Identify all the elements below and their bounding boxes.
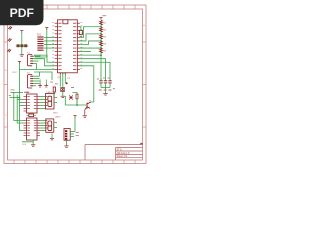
label net right bbox=[113, 88, 115, 90]
wire C6 C7 C8 common bbox=[101, 83, 110, 88]
wire R1-R2 bbox=[100, 24, 102, 27]
label C8 bbox=[109, 89, 112, 91]
connector S1 pads bbox=[17, 44, 28, 47]
wire SV3 risers bbox=[37, 63, 40, 76]
wire IC2 to DIS1 e bbox=[40, 108, 46, 110]
wire GND pin down bbox=[64, 74, 66, 83]
junction dots R ladder bbox=[100, 26, 102, 49]
capacitor C8 bbox=[108, 81, 111, 83]
display DIS2 segments bbox=[48, 121, 52, 131]
frame row letter marks bbox=[5, 24, 145, 117]
wire IC2 to DIS1 d bbox=[40, 105, 46, 107]
wire X3 VCC riser bbox=[74, 117, 76, 132]
wire IC1 row6 to R ladder junction3 bbox=[80, 41, 101, 45]
frame inner border bbox=[8, 9, 143, 160]
IC1 pin numbers right bbox=[81, 22, 83, 68]
wire S1 to ground bbox=[21, 47, 23, 54]
wire left jog to IC1 row12 bbox=[34, 59, 55, 66]
jumper JP1 bbox=[8, 26, 12, 29]
ground X3 bbox=[64, 146, 68, 147]
wire IC1 row10 to C7 bbox=[80, 59, 106, 82]
junction ladder bottom bbox=[100, 54, 102, 56]
svg-text:GND: GND bbox=[10, 90, 15, 92]
wire XTAL2 down bbox=[62, 74, 64, 92]
frame top ticks bbox=[47, 5, 135, 9]
wire SV1 to IC1 row7 bbox=[44, 44, 55, 46]
connector SV1 bbox=[37, 37, 43, 50]
title block outline bbox=[85, 145, 143, 161]
wire IC4 to DIS2 b bbox=[40, 122, 46, 124]
IC2 pins right bbox=[37, 97, 40, 109]
display DIS1 body bbox=[46, 94, 55, 110]
label C4 bbox=[80, 35, 83, 37]
wire IC2 to DIS1 a bbox=[40, 96, 46, 98]
ground IC4 bbox=[31, 145, 35, 146]
label X3 nets bbox=[76, 133, 79, 136]
capacitor C7 bbox=[104, 81, 107, 83]
wire bus tap A bbox=[11, 92, 24, 94]
resistor R4 bbox=[100, 41, 103, 46]
label C9 bbox=[71, 87, 74, 89]
VCC symbol R ladder top bbox=[99, 18, 102, 20]
IC1 pins left bbox=[55, 23, 58, 69]
IC1 pin names right bbox=[73, 23, 76, 69]
junction DIS1 top bbox=[53, 92, 55, 94]
connector X3 pads bbox=[65, 130, 67, 140]
wire IC1 row1 to C4 bbox=[80, 27, 81, 31]
svg-text:Sheet: 1/1: Sheet: 1/1 bbox=[117, 155, 129, 158]
badge PDF bbox=[0, 0, 44, 25]
DIS2 pin dashes bbox=[46, 121, 47, 129]
resistor R7 bbox=[76, 94, 78, 99]
wire bus tap B bbox=[10, 97, 20, 99]
frame outer border bbox=[4, 5, 146, 164]
VCC symbol rail left bbox=[18, 61, 21, 63]
wire IC4 to DIS2 c bbox=[40, 125, 46, 127]
wire IC1 row11 to C8 bbox=[80, 62, 110, 81]
connector SV2 bbox=[27, 55, 33, 66]
wire VCC rail right of SV1 bbox=[35, 28, 47, 57]
IC2 body bbox=[27, 94, 38, 113]
IC2 pin name dashes bbox=[27, 97, 36, 109]
resistor R8 above DIS1 bbox=[53, 87, 55, 92]
wire SV2 pin3 bbox=[33, 60, 39, 62]
svg-text:VCC: VCC bbox=[12, 72, 17, 74]
wire R7 to base bbox=[76, 99, 78, 105]
IC1 pin names left bbox=[58, 23, 61, 69]
wire SV1 to IC1 row8 bbox=[44, 47, 55, 49]
IC1 pin numbers left bbox=[52, 22, 54, 68]
wire SV3 pin1 bbox=[33, 75, 40, 77]
wire IC1 row8 right stub bbox=[80, 51, 91, 53]
wire bus V2 bbox=[17, 95, 23, 123]
junction R7 base bbox=[76, 104, 78, 106]
junction rail left bbox=[19, 97, 21, 99]
wire Q2 emitter stub bbox=[84, 110, 86, 116]
wire C9 branch bbox=[73, 93, 78, 104]
label C7 bbox=[104, 89, 107, 91]
wire SV1 to IC1 row5 bbox=[44, 36, 55, 38]
IC2 pins left bbox=[24, 97, 27, 112]
ground below Q1 bbox=[61, 96, 65, 97]
wire X3 pin2 bbox=[70, 133, 74, 135]
wire S1 to VCC bbox=[21, 33, 23, 44]
ground Q2 emitter bbox=[83, 116, 87, 117]
ground below S1 bbox=[20, 55, 24, 56]
wire R2-R3 bbox=[100, 31, 102, 34]
connector X3 body bbox=[64, 129, 70, 141]
wire IC4 to DIS2 a bbox=[40, 120, 46, 122]
frame side ticks bbox=[4, 42, 146, 127]
wire IC1 row9 to C6 bbox=[80, 55, 101, 81]
display DIS2 body bbox=[46, 119, 54, 132]
VCC symbol top rail bbox=[45, 28, 48, 30]
wire SV2 pin4 bbox=[33, 62, 37, 64]
wire DIS1 right stubs bbox=[54, 98, 57, 103]
wire IC4 bottom bbox=[22, 140, 33, 144]
transistor Q2 bbox=[85, 102, 91, 110]
wire X3 pin1 bbox=[70, 131, 75, 133]
title block field grid bbox=[116, 148, 143, 161]
IC4 body bbox=[27, 118, 38, 140]
IC4 pins left bbox=[24, 121, 27, 136]
resistor R3 bbox=[100, 34, 103, 39]
wire DIS2 right stubs bbox=[54, 123, 57, 128]
wire bus V1 bbox=[14, 93, 24, 121]
crystal Q1 bbox=[61, 88, 65, 92]
label C7 left bbox=[103, 77, 105, 79]
capacitor C4 bbox=[79, 31, 82, 35]
label rail B bbox=[50, 81, 53, 83]
frame bottom ticks bbox=[14, 160, 135, 164]
wire IC1 row4 to R ladder junction1 bbox=[80, 27, 101, 38]
wire IC1 row5 to R ladder junction2 bbox=[80, 34, 101, 41]
IC4 pin name dashes bbox=[27, 121, 36, 136]
ground DIS2 bbox=[50, 139, 54, 140]
VCC symbol X3 bbox=[73, 116, 76, 118]
label net tap bbox=[9, 94, 11, 96]
wire R3-R4 bbox=[100, 38, 102, 41]
wire R8 to DIS1 bbox=[53, 92, 55, 94]
resistor R5 bbox=[100, 48, 103, 53]
wire SV3 pin3 bbox=[33, 80, 40, 82]
wire Q2 base bbox=[65, 104, 86, 106]
IC1 notch bbox=[63, 20, 68, 24]
VCC symbol above S1 bbox=[20, 31, 23, 33]
wire caps to ground bbox=[105, 88, 107, 94]
IC1 pins right bbox=[77, 23, 80, 69]
wire base riser bbox=[64, 96, 66, 105]
wire C5 stubs bbox=[26, 114, 36, 116]
wire XTAL1 down bbox=[59, 74, 61, 86]
connector SV3 bbox=[27, 75, 33, 88]
wire X3 to ground bbox=[66, 140, 68, 145]
wire Q1 to ground bbox=[62, 92, 64, 96]
wire rail B bbox=[34, 72, 52, 80]
resistor R1 bbox=[100, 20, 103, 25]
wire IC4 to DIS2 e bbox=[40, 130, 46, 132]
IC1 bottom pads bbox=[60, 73, 65, 75]
wire long rail to IC1 row13 bbox=[20, 68, 55, 70]
IC1 body bbox=[58, 20, 78, 73]
wire IC1 row12 to Q2 collector bbox=[80, 66, 94, 102]
wire SV3 pin5 bbox=[33, 85, 36, 87]
label IC1 value bbox=[102, 15, 106, 17]
label below SV3 bbox=[24, 91, 29, 93]
wire SV3 pin4 bbox=[33, 82, 40, 84]
wire SV2 pin2 bbox=[33, 58, 42, 60]
wire IC2 to DIS1 c bbox=[40, 102, 46, 104]
svg-text:LED2: LED2 bbox=[55, 117, 61, 119]
junction node below IC1 bbox=[66, 82, 68, 84]
ground caps bbox=[103, 94, 107, 95]
jumper JP2 bbox=[8, 38, 12, 41]
wire SV1 to IC1 row6 bbox=[44, 40, 55, 42]
label C6 bbox=[99, 89, 102, 91]
wire bus tap IC2a bbox=[17, 99, 23, 101]
wire SV2 pin1 bbox=[33, 55, 40, 56]
display DIS1 segments bbox=[48, 96, 52, 106]
IC4 pins right bbox=[37, 121, 40, 136]
wire bus tap IC2b bbox=[20, 102, 24, 104]
svg-text:SV1: SV1 bbox=[37, 34, 42, 37]
wire Q2 collector joint bbox=[91, 101, 94, 103]
label C8 left bbox=[108, 77, 110, 79]
title block corner mark bbox=[140, 143, 142, 145]
ground cap drop bbox=[38, 84, 48, 87]
wire left jog to IC1 row11 bbox=[34, 55, 55, 62]
VCC rail left bbox=[19, 63, 21, 97]
wire IC4 to DIS2 d bbox=[40, 127, 46, 129]
wire bus V3 bbox=[20, 98, 24, 131]
capacitor C6 bbox=[99, 78, 102, 83]
wire IC1 row7 to R ladder junction4 bbox=[80, 47, 101, 49]
jumper JP3 bbox=[7, 49, 11, 52]
wire R4-R5 bbox=[100, 45, 102, 48]
wire ladder bottom bbox=[100, 52, 102, 55]
wire DIS2 to ground bbox=[51, 134, 53, 139]
DIS1 pin dashes bbox=[46, 97, 47, 106]
svg-text:LED1: LED1 bbox=[47, 92, 53, 94]
label C6 left bbox=[97, 78, 99, 80]
wire SV3 pin2 bbox=[33, 78, 40, 80]
resistor R2 bbox=[100, 27, 103, 32]
capacitor C5 between ICs bbox=[29, 114, 34, 117]
wire gnd feeds bbox=[40, 80, 46, 84]
wire bus tap IC2c bbox=[20, 105, 24, 107]
wire S1 bus bbox=[16, 45, 28, 47]
capacitor C9 cross bbox=[69, 95, 72, 99]
wire IC2 to DIS1 b bbox=[40, 99, 46, 101]
svg-text:PDF: PDF bbox=[10, 6, 34, 20]
wire X3 pin3 bbox=[70, 136, 74, 138]
